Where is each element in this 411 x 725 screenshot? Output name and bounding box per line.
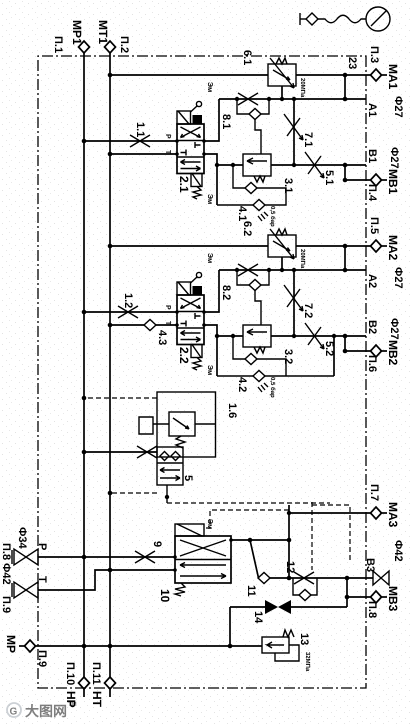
relief valve 1.6 top stem <box>195 423 215 425</box>
svg-text:Эм: Эм <box>206 194 213 204</box>
wire tie B1-MB1 <box>344 165 346 180</box>
valve 2.1 pilot hook <box>191 106 198 112</box>
junction tie B2 <box>343 334 348 339</box>
svg-text:MB2: MB2 <box>386 340 400 366</box>
svg-text:7.2: 7.2 <box>302 303 314 318</box>
throttle block 5 <box>137 446 157 458</box>
junction 3.1 bypass <box>231 163 235 167</box>
relief valve 1.6 spring <box>176 436 185 448</box>
valve 2.2 cell dividers <box>177 312 204 329</box>
junction tie MB2 <box>343 349 348 354</box>
valve 2.1 cell dividers <box>177 141 204 158</box>
junction 6.2-A2 <box>280 268 284 272</box>
svg-text:4.3: 4.3 <box>156 330 168 345</box>
svg-text:T: T <box>36 576 48 583</box>
junction 6.1-A1 <box>280 97 284 101</box>
pilot dashed box lower <box>311 502 313 570</box>
valve 2.2 body <box>177 295 204 345</box>
svg-text:2.1: 2.1 <box>177 176 191 193</box>
wire B2 drop <box>271 335 366 337</box>
svg-text:П.9: П.9 <box>0 596 12 613</box>
valve 2.1 port pads <box>202 139 206 143</box>
pilot dashed valve 10 <box>204 510 289 528</box>
svg-text:Ф27: Ф27 <box>392 96 404 118</box>
svg-text:13: 13 <box>298 633 310 645</box>
counterbalance valve 3.2 body <box>243 325 271 347</box>
junction pilot-MT1 <box>108 491 113 496</box>
relief valve 6.1 adjust arrow <box>270 58 294 88</box>
svg-text:Ф34: Ф34 <box>16 527 28 550</box>
svg-text:大图网: 大图网 <box>25 703 67 719</box>
throttle 7.2 <box>284 285 303 311</box>
valve 2.1 centre cell blocked ports <box>181 142 201 156</box>
svg-text:1.1: 1.1 <box>134 122 146 137</box>
throttle 7.2 tie wire <box>293 270 295 336</box>
port HP diamond <box>79 677 90 689</box>
svg-text:П.8: П.8 <box>366 601 378 618</box>
valve 10 divider <box>175 559 231 561</box>
svg-text:1.6: 1.6 <box>226 403 238 418</box>
throttle-check 8.1 check diamond <box>249 109 261 120</box>
wire 3.2 bypass <box>233 336 286 376</box>
throttle 7.1 <box>284 114 303 140</box>
relief valve 1.6 body <box>169 412 195 436</box>
svg-text:MP: MP <box>4 635 18 653</box>
wire B-rail section 1 <box>204 154 217 205</box>
svg-text:MA1: MA1 <box>386 64 400 90</box>
relief valve 6.2 spring <box>276 229 287 235</box>
counterbalance valve 3.1 spring <box>254 176 265 182</box>
svg-text:0,5 бар: 0,5 бар <box>269 377 276 398</box>
svg-text:Ф42: Ф42 <box>392 540 404 562</box>
relief valve 6.1 spring <box>276 58 287 64</box>
throttle 7.1 tie wire <box>293 99 295 165</box>
sub-assembly frame <box>157 392 216 457</box>
svg-text:3.1: 3.1 <box>282 178 294 193</box>
svg-text:G: G <box>10 707 18 718</box>
wire A-rail section 2 <box>204 270 219 312</box>
port HT diamond <box>105 677 116 689</box>
port MA1 stub <box>382 74 388 76</box>
junction MA3 rail-valve10 <box>287 538 292 543</box>
valve 2.2 left cell crossed arrows <box>181 298 201 309</box>
svg-text:П.2: П.2 <box>118 36 130 53</box>
svg-text:4.1: 4.1 <box>236 206 248 221</box>
check valve 4.1 spring <box>258 212 268 221</box>
wire T10 drop <box>38 570 175 590</box>
port MB2 stub <box>382 350 388 352</box>
svg-text:П.3: П.3 <box>368 46 380 63</box>
relief valve 13 arrow <box>267 642 284 648</box>
wire valve10 A riser <box>231 539 289 541</box>
svg-text:A2: A2 <box>366 274 378 288</box>
valve 2.2 right solenoid box <box>191 345 202 358</box>
relief valve 1.6 bottom loop <box>139 417 169 434</box>
svg-text:Эм: Эм <box>206 253 213 263</box>
svg-text:32МПа: 32МПа <box>304 652 311 672</box>
valve 10 pilot diagonal <box>177 524 202 536</box>
wire block 5 to MP1 <box>84 451 157 453</box>
svg-text:П.8: П.8 <box>0 543 12 560</box>
port P end bar <box>11 550 13 564</box>
throttle 5.1 <box>305 152 324 178</box>
wire 14 vertical <box>230 606 347 608</box>
junction tie B3 <box>345 576 350 581</box>
throttle 9 <box>135 551 155 563</box>
wire MT1 rail <box>109 53 111 677</box>
throttle-check 8.2 bypass wire <box>237 270 269 285</box>
pilot dashed wire to MT1 <box>110 492 157 494</box>
svg-text:A1: A1 <box>366 103 378 117</box>
svg-text:MT1: MT1 <box>96 20 110 44</box>
port MB3 stub <box>382 596 388 598</box>
junction P1-MP1 <box>82 139 87 144</box>
wire 3.1 bypass <box>233 165 286 205</box>
valve 2.2 port pads <box>202 310 206 314</box>
wire B1 drop <box>271 164 366 166</box>
pilot dashed wire to MP1 <box>84 397 157 399</box>
relief valve 13 spring <box>283 630 294 637</box>
wire tie B3-MB3-14 <box>346 578 348 607</box>
svg-text:Ф27: Ф27 <box>388 147 400 169</box>
shuttle block 5 body <box>157 447 183 485</box>
svg-text:2.2: 2.2 <box>177 347 191 364</box>
junction block5-MP1 <box>82 450 87 455</box>
port T end bar <box>11 583 13 597</box>
svg-text:П.4: П.4 <box>366 184 378 202</box>
wire MB3 drop <box>347 596 371 598</box>
counterbalance valve 3.1 arrow <box>247 158 267 164</box>
svg-text:P: P <box>164 305 171 310</box>
wire B2 below 3.2 <box>217 335 243 337</box>
junction 7.2-A2 <box>292 268 296 272</box>
svg-text:П.10: П.10 <box>64 662 76 685</box>
svg-text:10: 10 <box>158 589 172 603</box>
wire MB1 drop <box>345 179 371 181</box>
valve 10 right cell arrows <box>180 563 226 579</box>
gauge port stub <box>300 18 306 20</box>
svg-text:B1: B1 <box>366 149 378 163</box>
gauge check valve diamond <box>306 13 318 25</box>
relief valve 6.2 body <box>268 235 296 257</box>
wire 4.2 vertical <box>217 375 334 377</box>
svg-text:20МПа: 20МПа <box>299 249 306 269</box>
junction tie MB1 <box>343 178 348 183</box>
relief valve 6.1 arrow <box>273 70 290 80</box>
port MA2 diamond <box>371 240 382 252</box>
relief valve 6.2 adjust arrow <box>270 229 294 259</box>
shutoff valve 14 upper triangle <box>278 600 291 614</box>
junction tie A1 <box>343 97 348 102</box>
port MA3 stub <box>382 512 388 514</box>
shuttle block 5 divider <box>157 462 183 464</box>
junction B2 link <box>332 334 336 338</box>
valve 10 spring <box>175 583 185 596</box>
svg-text:23: 23 <box>346 57 358 69</box>
valve 2.2 left solenoid box <box>177 282 191 295</box>
junction 7.2-B2 <box>292 334 296 338</box>
valve 2.2 pilot hook <box>191 277 198 283</box>
port MP stub <box>19 645 25 647</box>
svg-text:12: 12 <box>284 561 296 573</box>
svg-text:14: 14 <box>252 611 264 624</box>
check valve 4.2 diamond <box>253 371 265 382</box>
MA3 rail <box>288 505 290 578</box>
svg-text:MB3: MB3 <box>386 586 400 612</box>
wire P1 drop <box>84 140 177 142</box>
svg-text:П.9: П.9 <box>36 650 48 667</box>
junction MA2-MT1 <box>108 244 113 249</box>
svg-text:P: P <box>164 134 171 139</box>
relief valve 1.6 arrow <box>173 418 189 429</box>
wire 8.2 to 3.2 <box>255 291 261 326</box>
counterbalance valve 3.1 body <box>243 154 271 176</box>
junction drain elbow <box>165 495 169 499</box>
wire A2 drop <box>219 269 366 271</box>
valve 10 pilot box <box>175 524 204 536</box>
svg-text:6.2: 6.2 <box>241 221 253 236</box>
throttle-check 8.1 bypass wire <box>237 99 269 114</box>
valve 10 body <box>175 536 231 583</box>
wire A1 drop <box>219 98 366 100</box>
counterbalance valve 3.2 arrow <box>247 329 267 335</box>
port P bowtie <box>14 549 38 565</box>
svg-text:Ф27: Ф27 <box>388 318 400 340</box>
wire tie MA2-A2 <box>344 246 346 270</box>
junction T10-MT1 <box>108 568 113 573</box>
svg-text:6.1: 6.1 <box>241 50 253 65</box>
junction B2-rail <box>215 334 219 338</box>
svg-text:B3: B3 <box>364 558 376 572</box>
relief valve 13 body <box>262 637 289 653</box>
wire T1 drop <box>110 153 177 155</box>
junction B1-rail <box>215 163 219 167</box>
wire P2 drop <box>84 311 177 313</box>
svg-text:MP1: MP1 <box>70 20 84 45</box>
svg-text:П.5: П.5 <box>368 217 380 234</box>
valve 2.1 body <box>177 124 204 174</box>
junction T2-MT1 <box>108 323 113 328</box>
svg-text:П.11: П.11 <box>90 662 102 685</box>
svg-text:3.2: 3.2 <box>282 349 294 364</box>
port MP diamond <box>25 640 36 652</box>
junction MP drain <box>228 644 233 649</box>
port MA1 diamond <box>371 69 382 81</box>
wire MA3 drop <box>289 512 371 514</box>
svg-text:11: 11 <box>245 585 257 597</box>
valve 2.2 right solenoid diagonal <box>192 345 201 358</box>
shutoff valve 14 lower triangle <box>265 600 278 614</box>
svg-text:П.6: П.6 <box>366 355 378 372</box>
port MA3 diamond <box>371 507 382 519</box>
valve 2.1 left cell crossed arrows <box>181 127 201 138</box>
wire check 11 to rail <box>270 577 289 579</box>
junction T1-MT1 <box>108 152 113 157</box>
relief valve 13 loop <box>275 645 299 661</box>
throttle-check 12 check diamond <box>299 590 311 601</box>
wire block 5 drain elbow <box>166 485 168 503</box>
wire B1 below 3.1 <box>217 164 243 166</box>
watermark <box>7 701 77 719</box>
junction tie MA1 <box>343 73 348 78</box>
junction tie MA2 <box>343 244 348 249</box>
svg-text:P: P <box>36 543 48 550</box>
valve 2.1 right spring <box>193 187 201 200</box>
wire B-rail section 2 <box>204 325 217 376</box>
throttle-check 12 bypass <box>293 578 317 595</box>
wire MB2 drop <box>345 350 371 352</box>
junction MA1-MT1 <box>108 73 113 78</box>
wire tie B2-MB2 <box>344 336 346 351</box>
svg-text:5.1: 5.1 <box>323 170 335 185</box>
check valve 3.1 bypass diamond <box>245 183 257 194</box>
relief valve 6.2 arrow <box>273 241 290 251</box>
shuttle block 5 check diamond b <box>160 452 169 461</box>
svg-text:5: 5 <box>182 475 194 481</box>
valve 2.2 left solenoid diagonal <box>178 282 189 295</box>
wire diagonal to check 11 <box>250 540 259 578</box>
throttle 5.2 <box>305 323 324 349</box>
throttle-check 12 throttle <box>294 572 314 584</box>
valve 2.1 left solenoid diagonal <box>178 111 189 124</box>
port MB1 stub <box>382 179 388 181</box>
junction MP-MT1 <box>108 644 113 649</box>
gauge needle <box>371 10 387 26</box>
junction 8.1 bottom <box>235 97 239 101</box>
junction A riser diag <box>248 538 253 543</box>
wire T2 drop <box>110 324 177 326</box>
svg-text:B2: B2 <box>366 320 378 334</box>
throttle-check 8.2 throttle <box>238 264 258 276</box>
svg-text:П.1: П.1 <box>52 36 64 53</box>
svg-text:8.2: 8.2 <box>220 285 232 300</box>
svg-text:4.2: 4.2 <box>236 377 248 392</box>
junction rail-B3 <box>287 576 292 581</box>
wire B3 through 12 <box>289 577 347 579</box>
wire 14 to MP drain <box>229 607 231 646</box>
port HP stub <box>83 689 85 697</box>
svg-text:П.7: П.7 <box>368 484 380 501</box>
svg-text:9: 9 <box>151 541 163 547</box>
svg-text:Эм: Эм <box>206 365 213 375</box>
wire MP drain <box>36 645 263 647</box>
junction MP-MP1 <box>82 644 87 649</box>
junction 7.1-A1 <box>292 97 296 101</box>
wire P10 drop <box>84 556 175 558</box>
relief valve 6.1 body <box>268 64 296 86</box>
wire MA2 drop <box>110 245 371 247</box>
svg-text:7.1: 7.1 <box>302 132 314 147</box>
enclosure dash-dot border <box>38 56 366 688</box>
throttle 1.2 <box>118 306 138 318</box>
check valve 4.3 diamond <box>144 320 156 331</box>
check valve 4.2 spring <box>258 383 268 392</box>
valve 10 port pads <box>229 538 233 542</box>
junction pilot-MP1 <box>82 396 87 401</box>
wire 4.1 to rail <box>217 204 253 206</box>
valve 2.2 right cell arrows <box>181 331 201 343</box>
svg-text:Эм: Эм <box>206 82 213 92</box>
check valve 3.2 bypass diamond <box>245 354 257 365</box>
wire 6.2 pilot to A2 <box>281 257 283 270</box>
wire P to border <box>38 556 84 558</box>
svg-text:MA3: MA3 <box>386 502 400 528</box>
wire B3 drop <box>347 577 373 579</box>
throttle-check 8.1 throttle <box>238 93 258 105</box>
valve 2.2 right spring <box>193 358 201 371</box>
wire MP1 rail <box>83 53 85 677</box>
port MP1 diamond <box>79 41 90 53</box>
svg-text:MB1: MB1 <box>386 169 400 195</box>
junction tie MB3 <box>345 595 350 600</box>
valve 2.1 right solenoid diagonal <box>192 174 201 187</box>
port MB1 diamond <box>371 174 382 186</box>
junction 8.2 top <box>267 268 271 272</box>
check valve 11 diamond <box>258 573 270 584</box>
junction MA3-rail <box>287 511 291 515</box>
junction 7.1-B1 <box>292 163 296 167</box>
check valve 4.1 diamond <box>253 200 265 211</box>
svg-text:НТ: НТ <box>90 691 104 708</box>
wire tie MA1-A1 <box>344 75 346 99</box>
svg-text:MA2: MA2 <box>386 235 400 261</box>
wire 6.1 pilot to A1 <box>281 86 283 99</box>
pressure gauge MN1 <box>366 7 390 31</box>
port MA2 stub <box>382 245 388 247</box>
svg-text:Ф42: Ф42 <box>0 563 12 585</box>
junction 8.1 top <box>267 97 271 101</box>
wire A-rail section 1 <box>204 99 219 141</box>
junction P2-MP1 <box>82 310 87 315</box>
junction 3.2 bypass <box>231 334 235 338</box>
valve 10 left cell cross <box>180 540 226 556</box>
junction tie A2 <box>343 268 348 273</box>
port MT1 diamond <box>105 41 116 53</box>
wire B2 link to 4.2 <box>333 336 335 376</box>
counterbalance valve 3.2 spring <box>254 347 265 353</box>
junction 8.2 bottom <box>235 268 239 272</box>
wire MA1 drop <box>110 74 371 76</box>
valve 2.2 centre cell blocked ports <box>181 313 201 327</box>
port HT stub <box>109 689 111 697</box>
pilot dashed box upper <box>312 505 350 562</box>
port MB2 diamond <box>371 345 382 357</box>
svg-text:8.1: 8.1 <box>220 114 232 129</box>
pilot dashed riser <box>167 502 330 504</box>
svg-text:TM: TM <box>68 701 77 708</box>
valve 2.2 left black box <box>193 286 203 295</box>
shuttle block 5 check diamond a <box>171 452 180 461</box>
valve 2.1 right solenoid box <box>191 174 202 187</box>
svg-text:Ф27: Ф27 <box>392 267 404 289</box>
shuttle block 5 arrows <box>160 468 180 481</box>
junction tie B1 <box>343 163 348 168</box>
valve 2.1 left solenoid box <box>177 111 191 124</box>
wire 8.1 to 3.1 <box>255 120 261 155</box>
valve 2.1 right cell arrows <box>181 160 201 172</box>
throttle-check 8.2 check diamond <box>249 280 261 291</box>
svg-text:20МПа: 20МПа <box>299 78 306 98</box>
svg-text:1.2: 1.2 <box>122 293 134 308</box>
port T bowtie <box>14 582 38 598</box>
port B3 shutoff bowtie <box>373 571 389 585</box>
gauge damping squiggle wire <box>318 15 366 23</box>
svg-text:0,5 бар: 0,5 бар <box>269 206 276 227</box>
gauge port end bar <box>299 13 301 25</box>
junction P10-MP1 <box>82 555 87 560</box>
port MB3 diamond <box>371 591 382 603</box>
throttle 1.1 <box>130 135 150 147</box>
